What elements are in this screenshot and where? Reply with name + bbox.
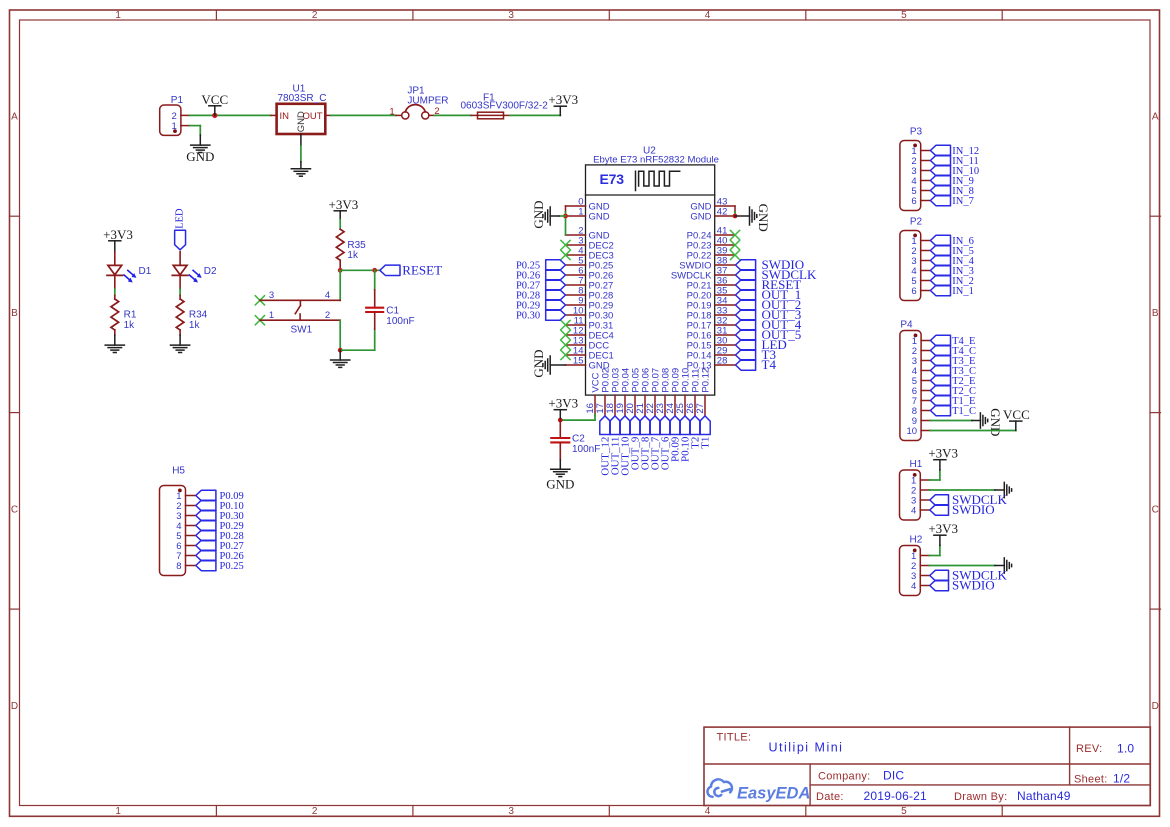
svg-text:GND: GND [296, 111, 307, 132]
svg-text:1.0: 1.0 [1117, 742, 1134, 756]
svg-text:2: 2 [312, 806, 318, 817]
svg-text:D2: D2 [204, 266, 217, 277]
svg-text:Utilipi Mini: Utilipi Mini [769, 740, 844, 754]
svg-text:3: 3 [508, 806, 514, 817]
resistor R35 [336, 229, 366, 270]
jumper JP1 [389, 85, 448, 119]
svg-text:+3V3: +3V3 [548, 396, 578, 411]
ground U2 left-top [531, 200, 559, 228]
ground P1 [186, 135, 214, 164]
net label LED [174, 208, 185, 250]
svg-text:VCC: VCC [1003, 407, 1030, 422]
svg-text:8: 8 [176, 561, 181, 572]
svg-text:SWDIO: SWDIO [952, 502, 995, 517]
svg-text:B: B [1152, 308, 1159, 319]
svg-text:5: 5 [901, 806, 907, 817]
svg-text:DIC: DIC [883, 768, 904, 782]
svg-text:T4: T4 [762, 357, 777, 372]
svg-text:Sheet:: Sheet: [1074, 773, 1108, 785]
svg-text:IN: IN [280, 111, 290, 122]
svg-text:Company:: Company: [818, 770, 871, 782]
svg-text:+3V3: +3V3 [928, 521, 958, 536]
svg-text:H5: H5 [172, 466, 185, 477]
connector H5 [160, 466, 196, 576]
svg-text:15: 15 [573, 355, 584, 366]
regulator U1 7803SR_C [271, 83, 331, 146]
svg-text:D1: D1 [139, 266, 152, 277]
svg-text:1k: 1k [124, 320, 136, 331]
module U2 Ebyte E73 nRF52832 [566, 146, 736, 416]
svg-text:1/2: 1/2 [1113, 772, 1130, 786]
power flag VCC [201, 92, 228, 118]
wire gnd stub left [559, 215, 566, 217]
node U2 left gnd junction [563, 214, 568, 219]
svg-text:E73: E73 [600, 171, 625, 187]
node U2 right gnd junction [733, 214, 738, 219]
svg-text:A: A [1152, 112, 1159, 123]
node RESET junction B [372, 268, 377, 273]
svg-text:D: D [11, 701, 18, 712]
wire D2 to R34 [179, 289, 181, 295]
power flag +3V3 (H2) [928, 521, 958, 555]
wire H2.2 to GND [929, 565, 995, 567]
switch SW1 [255, 290, 340, 336]
ground U2 pin15 [531, 349, 566, 377]
svg-text:H1: H1 [910, 459, 923, 470]
power flag +3V3 (C2) [548, 396, 578, 420]
net labels P0.25-P0.30 (U2 left) [516, 260, 566, 322]
ground D2 [171, 335, 190, 352]
net labels IN_6..IN_1 [930, 235, 974, 297]
net labels OUT_12..T1 (U2 bottom) [600, 416, 712, 476]
svg-text:100nF: 100nF [572, 444, 600, 455]
svg-text:P4: P4 [900, 320, 913, 331]
svg-text:P0.12: P0.12 [700, 368, 711, 393]
svg-text:1k: 1k [347, 250, 359, 261]
connector H2 [900, 534, 931, 595]
svg-text:28: 28 [717, 355, 728, 366]
wire gnd junction to C1 bottom [340, 329, 375, 350]
capacitor C1 [366, 290, 414, 329]
svg-text:GND: GND [589, 211, 610, 222]
wire U1.OUT to JP1.1 [331, 114, 396, 116]
connector P1 [160, 95, 190, 136]
svg-text:GND: GND [186, 149, 214, 164]
svg-text:RESET: RESET [402, 263, 442, 278]
svg-text:C: C [1152, 504, 1159, 515]
svg-text:4: 4 [911, 506, 916, 517]
connector H1 [900, 459, 931, 520]
ground SW1/C1 [331, 350, 350, 367]
svg-text:3: 3 [508, 10, 514, 21]
net labels T4_E..T1_C [930, 335, 976, 417]
wire P1.1 to GND [190, 126, 201, 135]
svg-text:7803SR_C: 7803SR_C [278, 93, 327, 104]
svg-text:4: 4 [705, 806, 711, 817]
net labels IN_12..IN_7 [930, 145, 979, 207]
node SW1 gnd junction [338, 348, 343, 353]
svg-text:P3: P3 [910, 127, 923, 138]
svg-text:P0.30: P0.30 [516, 311, 540, 322]
svg-text:P0.25: P0.25 [220, 561, 244, 572]
svg-text:T1_C: T1_C [952, 406, 976, 417]
svg-text:5: 5 [901, 10, 907, 21]
no-connect X pins 39-41 [730, 230, 739, 259]
ground H1 [995, 482, 1012, 497]
wire P4.10 to VCC [930, 430, 1016, 432]
node RESET junction A [338, 268, 343, 273]
svg-text:REV:: REV: [1076, 743, 1102, 755]
svg-text:GND: GND [988, 408, 1003, 436]
ground U2 right [735, 204, 771, 232]
wire P1.2 to U1.IN [190, 114, 271, 116]
svg-text:4: 4 [705, 10, 711, 21]
svg-text:A: A [11, 112, 18, 123]
svg-text:27: 27 [695, 403, 706, 414]
wire U2 pins0-2 gnd [565, 206, 567, 235]
wire junctionB to C1 top [374, 270, 376, 290]
svg-text:Drawn By:: Drawn By: [954, 791, 1007, 803]
resistor R1 [111, 295, 137, 335]
svg-text:GND: GND [756, 204, 771, 232]
wire U2 pins42-43 gnd [734, 206, 736, 216]
svg-text:2: 2 [312, 10, 318, 21]
svg-text:IN_1: IN_1 [952, 286, 974, 297]
net labels SWDCLK/SWDIO (H2) [930, 568, 1008, 593]
svg-text:1: 1 [115, 10, 121, 21]
svg-text:+3V3: +3V3 [928, 446, 958, 461]
svg-text:Nathan49: Nathan49 [1017, 789, 1071, 803]
connector P3 [900, 127, 931, 211]
svg-text:D: D [1152, 701, 1159, 712]
svg-text:2019-06-21: 2019-06-21 [864, 789, 928, 803]
svg-text:VCC: VCC [201, 92, 228, 107]
no-connect X pins 11-14 [561, 320, 570, 359]
svg-text:100nF: 100nF [386, 316, 414, 327]
power flag +3V3 (D1) [103, 227, 133, 252]
wire junctionA to RESET [340, 269, 380, 271]
svg-text:GND: GND [546, 477, 574, 492]
ground D1 [105, 335, 124, 352]
svg-text:SW1: SW1 [291, 325, 313, 336]
connector P2 [900, 217, 931, 301]
net labels H5 P0.09..P0.25 [196, 490, 244, 572]
svg-text:+3V3: +3V3 [548, 92, 578, 107]
svg-text:10: 10 [907, 426, 918, 437]
svg-text:6: 6 [911, 196, 916, 207]
wire junctionA down to SW1.4 [339, 270, 341, 300]
svg-text:B: B [11, 308, 18, 319]
LED D1 [107, 252, 152, 289]
svg-text:P1: P1 [171, 95, 184, 106]
svg-text:SWDIO: SWDIO [952, 578, 995, 593]
svg-text:6: 6 [911, 286, 916, 297]
svg-text:T1: T1 [700, 437, 712, 449]
svg-text:LED: LED [174, 208, 185, 229]
net labels SWDIO..T4 (U2 right) [736, 257, 818, 372]
svg-text:1: 1 [578, 206, 583, 217]
ground H2 [995, 558, 1012, 573]
ground U1 [291, 162, 310, 176]
capacitor C2 [551, 420, 600, 460]
svg-text:4: 4 [911, 581, 916, 592]
ground C2 [546, 460, 574, 492]
LED D2 [172, 252, 217, 289]
wire U2.16 to +3V3 [560, 414, 595, 420]
svg-text:EasyEDA: EasyEDA [737, 784, 810, 802]
net labels SWDCLK/SWDIO (H1) [930, 492, 1008, 517]
svg-text:P2: P2 [910, 217, 923, 228]
svg-text:C: C [11, 504, 18, 515]
svg-text:H2: H2 [910, 534, 923, 545]
wire U1.GND down [300, 146, 302, 162]
wire F1 to +3V3 [510, 114, 560, 116]
power flag VCC (P4) [1003, 407, 1030, 430]
resistor R34 [176, 295, 207, 335]
wire P4.9 to GND [930, 420, 972, 422]
svg-text:1: 1 [389, 107, 394, 118]
fuse F1 [461, 93, 549, 119]
svg-text:+3V3: +3V3 [103, 227, 133, 242]
power flag +3V3 (R35) [329, 197, 359, 220]
ground P4 [972, 408, 1003, 436]
power flag +3V3 (H1) [928, 446, 958, 480]
wire JP1.2 to F1 [434, 114, 471, 116]
no-connect X pins 3,4 [561, 240, 570, 259]
wire SW1.2 down [339, 320, 341, 350]
svg-text:0603SFV300F/32-2: 0603SFV300F/32-2 [461, 100, 549, 111]
svg-text:TITLE:: TITLE: [717, 732, 752, 744]
net label RESET [380, 263, 442, 278]
svg-text:+3V3: +3V3 [329, 197, 359, 212]
connector P4 [900, 320, 931, 441]
svg-text:Date:: Date: [816, 791, 844, 803]
power flag +3V3 (rail) [548, 92, 578, 115]
svg-text:42: 42 [717, 206, 728, 217]
svg-text:Ebyte E73 nRF52832 Module: Ebyte E73 nRF52832 Module [593, 155, 719, 166]
svg-text:1k: 1k [189, 320, 201, 331]
wire +3V3 to R35 [339, 220, 341, 230]
wire D1 to R1 [114, 289, 116, 295]
svg-text:1: 1 [115, 806, 121, 817]
node C2 junction [558, 418, 563, 423]
svg-text:IN_7: IN_7 [952, 196, 974, 207]
wire H1.2 to GND [929, 489, 995, 491]
svg-text:GND: GND [690, 211, 711, 222]
